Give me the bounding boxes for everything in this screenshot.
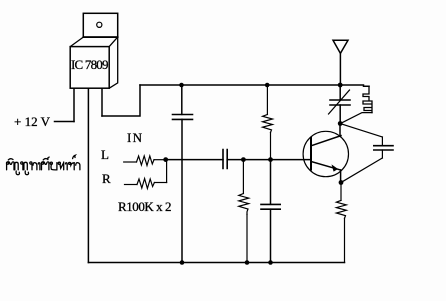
antenna: [333, 40, 348, 53]
inductor L1 top wire: [340, 85, 369, 86]
node R2 ground junction: [245, 260, 250, 265]
IC1 pin 3 output leg: [101, 89, 103, 116]
glyph SARA E 1: [38, 163, 40, 170]
wire +12V input: [55, 121, 75, 123]
wire C2 to node C: [227, 159, 243, 161]
node D base network junction 2: [268, 157, 273, 162]
glyph SARA AA 1: [33, 163, 37, 170]
resistor R1b right lead: [154, 182, 166, 184]
node C1 ground junction: [180, 260, 185, 265]
transistor Q1 emitter stroke: [311, 162, 341, 171]
node A supply to C1: [179, 83, 184, 88]
label Thai audio input text: [7, 155, 80, 175]
IC1 pin 1 input leg: [73, 89, 75, 122]
capacitor C3 plates: [261, 204, 280, 209]
capacitor C5 top diagonal from collector: [340, 124, 382, 138]
variable capacitor VC1 top lead: [339, 85, 341, 100]
resistor R5 top lead: [340, 183, 342, 201]
glyph YO YING 1: [15, 162, 18, 170]
wire antenna lead: [339, 53, 341, 85]
capacitor C5 top lead: [381, 137, 383, 146]
glyph NGO NGU: [58, 162, 60, 164]
regulator IC1 body front face: [70, 47, 109, 89]
glyph SARA AA 2: [76, 163, 80, 170]
node B audio mix junction: [163, 157, 168, 162]
mark MAI HAN-AKAT: [8, 159, 13, 160]
svg-text:R100K x 2: R100K x 2: [118, 199, 172, 214]
node F collector junction: [338, 121, 343, 126]
mark SARA II: [43, 157, 49, 160]
resistor R3 zigzag: [263, 115, 273, 133]
glyph SO SUA 1: [7, 162, 9, 164]
inductor L1 turns: [363, 86, 372, 112]
transistor Q1 base bar: [310, 138, 312, 170]
glyph SARA E 2: [66, 163, 68, 170]
capacitor C5 plates: [374, 146, 393, 150]
transistor Q1 collector stroke: [311, 136, 341, 146]
wire audio line to C2: [166, 159, 223, 161]
resistor R3 bottom lead: [270, 133, 272, 160]
glyph YO YAK: [50, 162, 52, 164]
wire collector up: [339, 124, 341, 136]
wire base line to Q1: [271, 159, 312, 161]
capacitor C1 bottom lead: [181, 119, 183, 262]
resistor R5 zigzag: [336, 200, 346, 218]
svg-text:L: L: [101, 147, 109, 162]
wire bottom ground rail: [88, 262, 344, 264]
transistor Q1 circle: [303, 131, 348, 176]
regulator IC1 7809 package tab: [83, 13, 117, 37]
wire output step: [102, 85, 140, 116]
regulator IC1 tab hole: [97, 22, 102, 27]
node C base network junction 1: [241, 157, 246, 162]
svg-text:R: R: [102, 171, 111, 186]
resistor R1 right lead to node: [154, 159, 166, 161]
svg-text:+ 12 V: + 12 V: [14, 114, 51, 129]
resistor R5 bottom lead: [344, 218, 346, 262]
glyph YO YING 2: [24, 162, 27, 170]
node C3 ground junction: [268, 260, 273, 265]
resistor R1b zigzag: [137, 179, 154, 189]
node H tank top junction: [338, 83, 343, 88]
glyph KHO KHAI: [69, 162, 71, 164]
wire node C to node D: [243, 159, 270, 161]
resistor R2 top lead: [242, 160, 244, 194]
resistor R1 zigzag: [137, 156, 155, 166]
capacitor C3 bottom lead: [270, 209, 272, 262]
variable capacitor VC1 bottom lead: [339, 105, 341, 124]
capacitor C5 bottom lead: [381, 150, 383, 158]
node G emitter junction: [339, 180, 344, 185]
capacitor C1 top lead: [181, 85, 183, 114]
wire top supply rail: [140, 84, 340, 86]
regulator IC1 tab bottom edge emphasis: [83, 36, 117, 38]
svg-text:IC 7809: IC 7809: [71, 57, 109, 72]
resistor R2 bottom lead: [246, 214, 248, 262]
resistor R1 left lead (L input): [124, 161, 137, 163]
regulator IC1 body top face: [70, 37, 118, 47]
capacitor C2 plates: [223, 150, 227, 169]
IC1 pin 2 ground leg: [87, 89, 89, 263]
wire L/R join vertical: [166, 160, 168, 183]
variable capacitor VC1 plates: [330, 100, 350, 105]
variable capacitor VC1 adjust stroke: [329, 90, 350, 114]
mark MAI THO: [73, 155, 76, 158]
capacitor C1 plates: [173, 115, 193, 120]
resistor R2 zigzag: [239, 194, 249, 215]
glyph SO SUA 2: [41, 162, 43, 164]
capacitor C3 top lead: [270, 160, 272, 205]
node E supply to R3: [265, 83, 270, 88]
svg-text:IN: IN: [127, 130, 143, 145]
regulator IC1 body side face: [109, 37, 118, 88]
capacitor C5 bottom diagonal to emitter: [341, 158, 382, 183]
inductor L1 bottom wire: [340, 113, 372, 124]
resistor R3 top lead: [266, 85, 268, 115]
transistor Q1 emitter arrowhead: [332, 164, 339, 171]
resistor R1b left lead (R input): [125, 184, 138, 186]
wire emitter down: [340, 170, 342, 183]
